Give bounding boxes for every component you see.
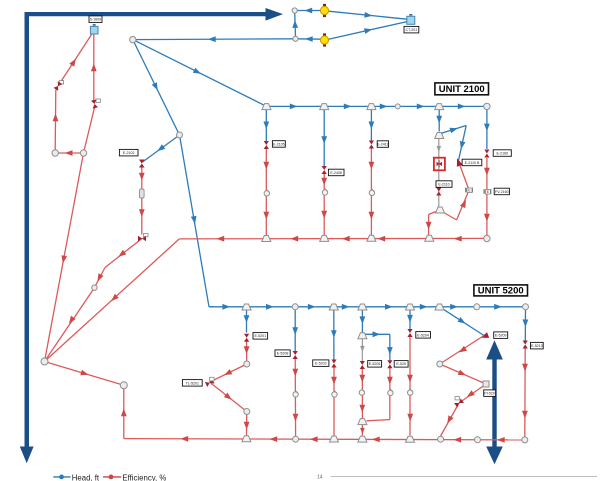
svg-text:E-2406: E-2406 bbox=[330, 171, 342, 175]
svg-text:CT-201: CT-201 bbox=[406, 28, 418, 32]
svg-text:Head, ft: Head, ft bbox=[72, 473, 100, 481]
svg-text:E-5205: E-5205 bbox=[369, 362, 381, 366]
svg-text:E-2411: E-2411 bbox=[377, 142, 388, 146]
svg-text:E-2110 B: E-2110 B bbox=[465, 161, 480, 165]
svg-text:E-2105: E-2105 bbox=[273, 142, 285, 146]
svg-text:E-5201: E-5201 bbox=[255, 334, 267, 338]
svg-text:TL-5201: TL-5201 bbox=[186, 381, 199, 385]
svg-text:E-5213: E-5213 bbox=[531, 344, 543, 348]
svg-text:E-5209: E-5209 bbox=[495, 334, 507, 338]
svg-text:PI-520: PI-520 bbox=[484, 392, 495, 396]
svg-text:UNIT 5200: UNIT 5200 bbox=[478, 286, 524, 297]
svg-text:E-2102: E-2102 bbox=[123, 151, 135, 155]
svg-text:E-2160: E-2160 bbox=[497, 152, 509, 156]
svg-text:E-5202: E-5202 bbox=[315, 362, 327, 366]
svg-text:E-526: E-526 bbox=[396, 362, 406, 366]
svg-text:UNIT 2100: UNIT 2100 bbox=[439, 84, 485, 95]
svg-text:E-2110: E-2110 bbox=[438, 182, 449, 186]
svg-text:5-1609: 5-1609 bbox=[90, 18, 101, 22]
svg-text:FV-2160: FV-2160 bbox=[495, 190, 509, 194]
svg-text:Efficiency, %: Efficiency, % bbox=[122, 473, 166, 481]
svg-text:E-5208: E-5208 bbox=[277, 352, 289, 356]
svg-text:14: 14 bbox=[317, 474, 323, 480]
svg-text:E-5204: E-5204 bbox=[417, 333, 429, 337]
